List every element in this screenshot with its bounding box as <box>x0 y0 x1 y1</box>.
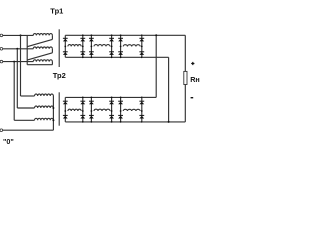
svg-text:Тр1: Тр1 <box>50 7 63 16</box>
svg-text:"0": "0" <box>3 137 14 146</box>
svg-text:Тр2: Тр2 <box>53 71 66 80</box>
svg-text:Rн: Rн <box>190 75 200 84</box>
